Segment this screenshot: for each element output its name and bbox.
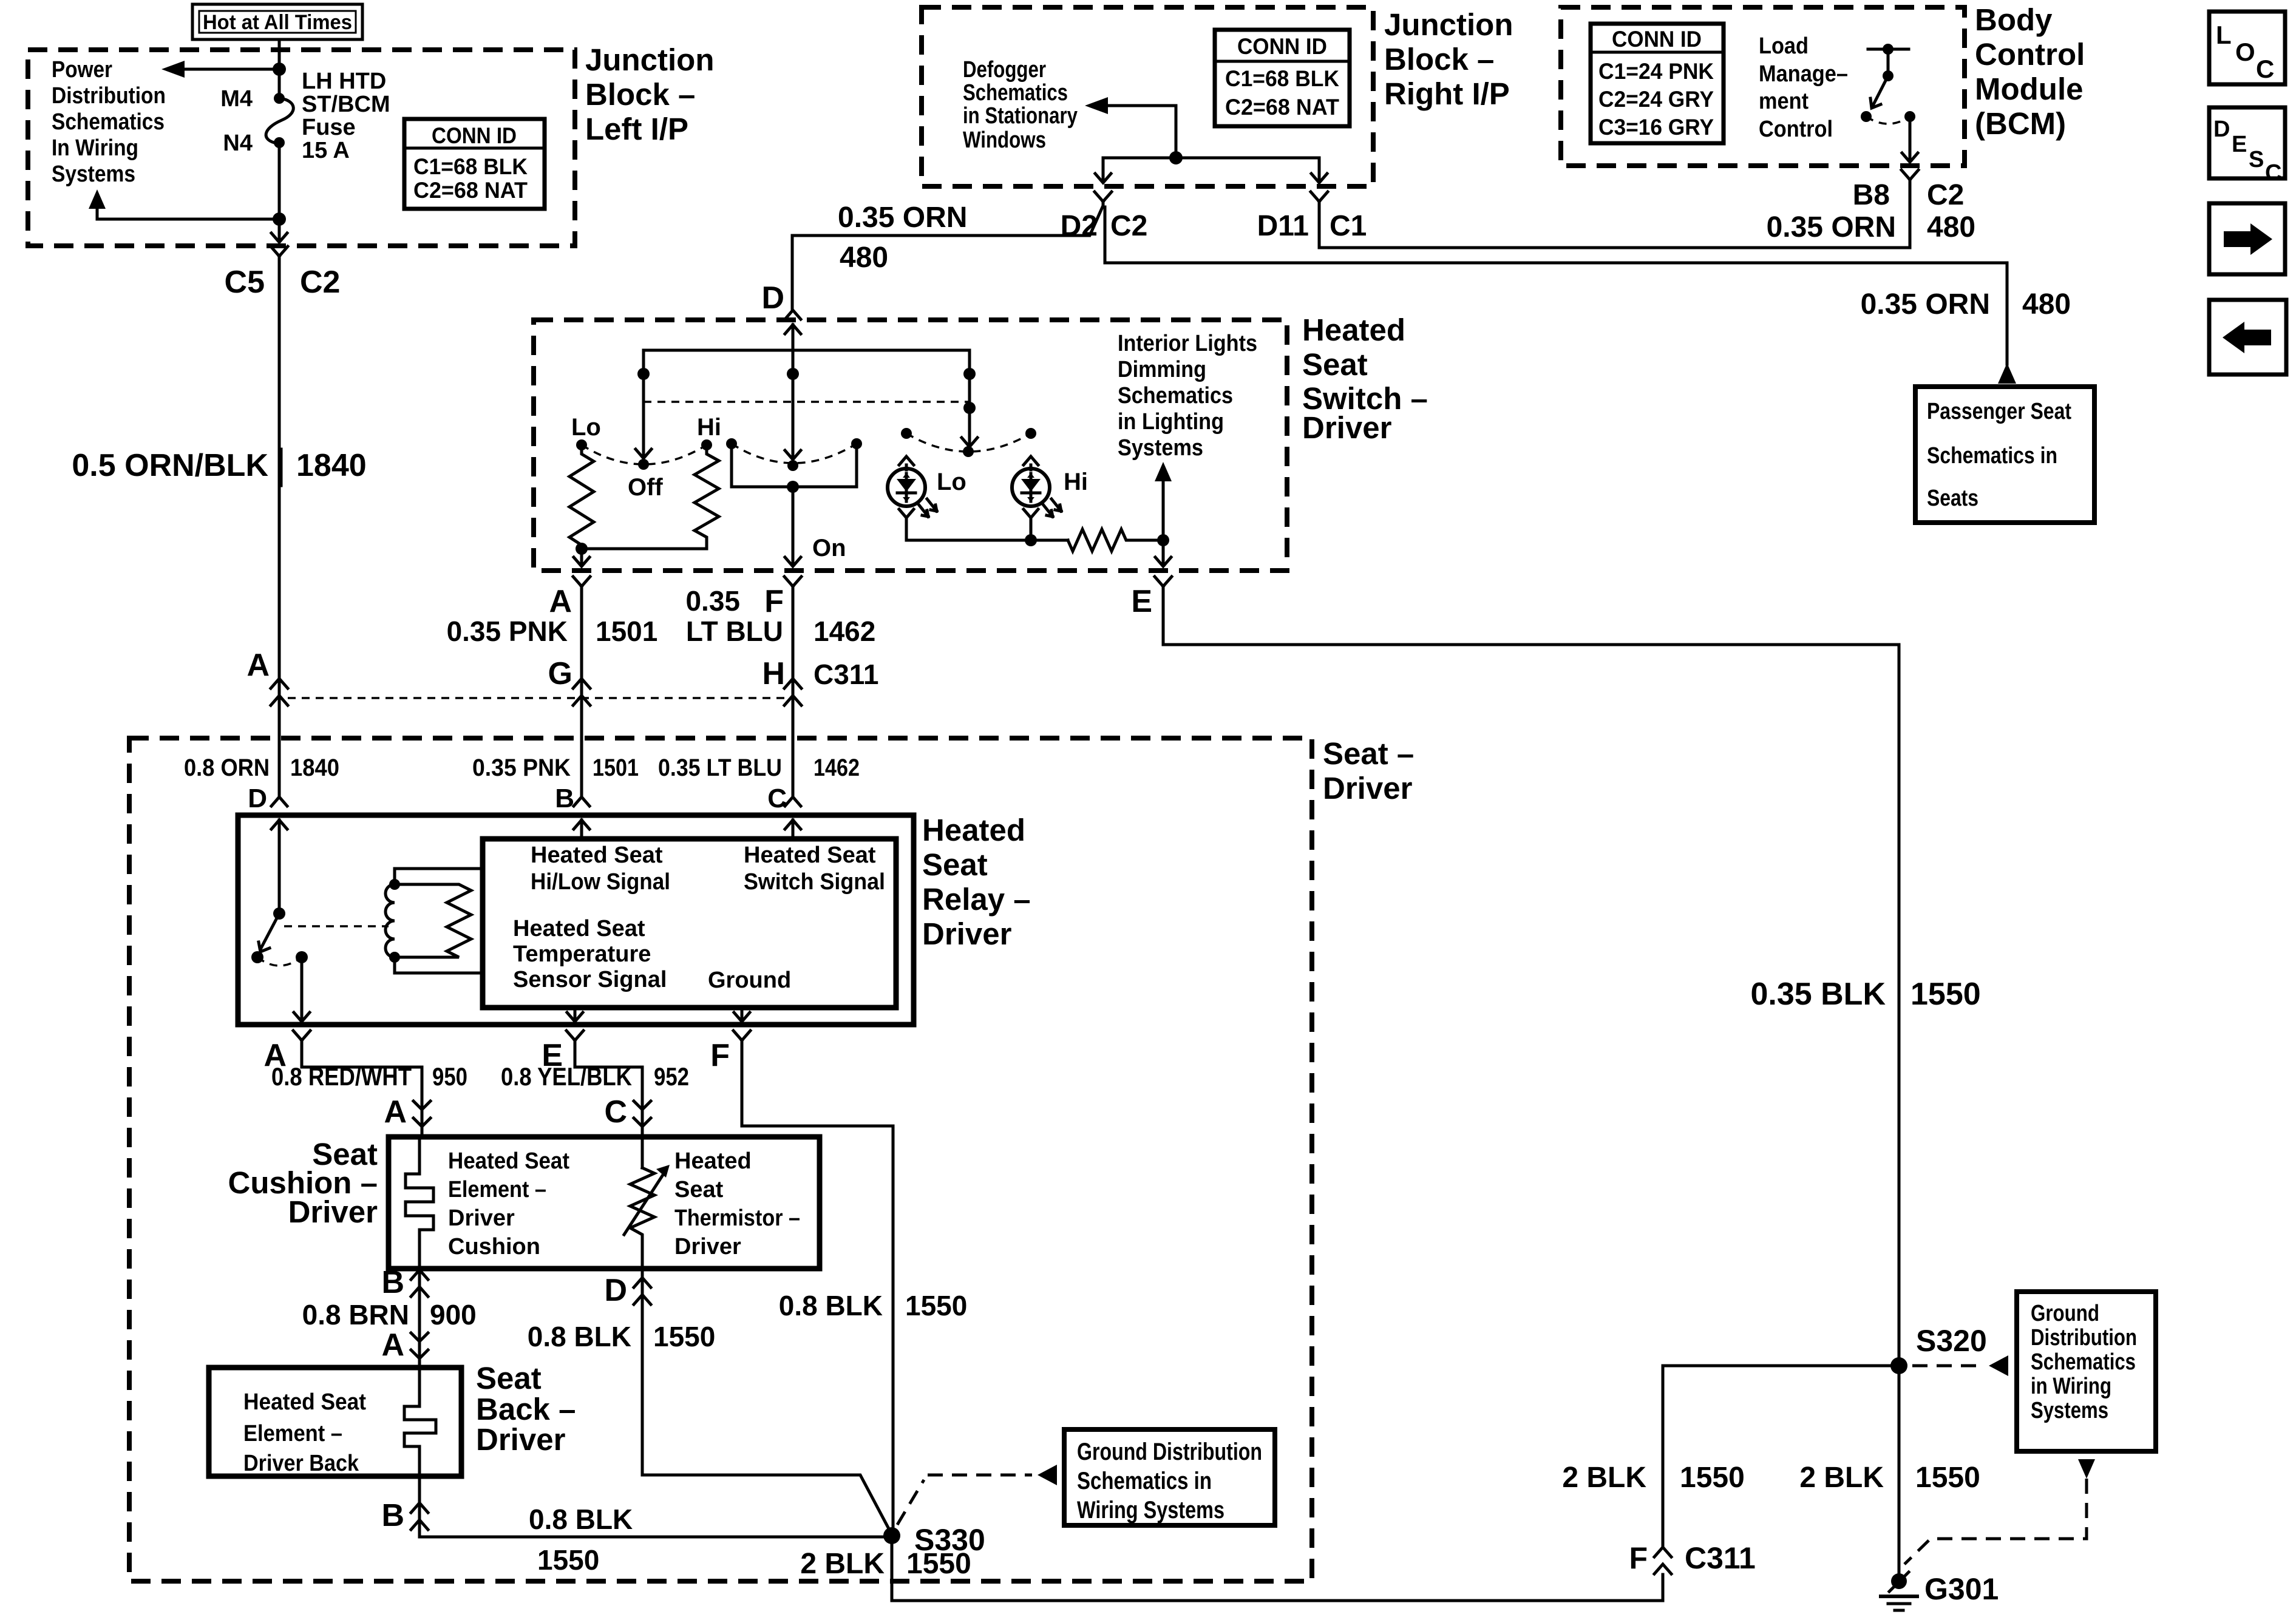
- svg-text:Left I/P: Left I/P: [585, 112, 688, 146]
- dashed reference to G301: [1904, 1479, 2087, 1564]
- fuse LH HTD ST/BCM 15 A: [266, 98, 293, 143]
- svg-text:D: D: [2213, 117, 2230, 142]
- dashed reference from S320: [1912, 1364, 1984, 1368]
- wire thermistor D to S330: [642, 1269, 892, 1534]
- heater element driver back: [404, 1368, 436, 1476]
- arrowhead left (ground distribution reference right): [1989, 1355, 2008, 1376]
- svg-text:1501: 1501: [593, 754, 639, 781]
- wire S330 to C311 F: [892, 1536, 1663, 1601]
- relay switch arm: [261, 914, 279, 948]
- contact Off: [638, 459, 649, 470]
- connector dashed line C311: [288, 697, 784, 699]
- wire switch A to relay B: [580, 591, 583, 796]
- svg-text:B8: B8: [1853, 179, 1890, 211]
- relay inner box: [483, 839, 896, 1008]
- svg-text:Element –: Element –: [243, 1421, 342, 1446]
- wire LED cathode bus: [906, 529, 1068, 540]
- splice S320: [1890, 1357, 1907, 1374]
- svg-text:480: 480: [840, 242, 888, 274]
- relay contact arc: [257, 957, 302, 966]
- wire on/off contacts to On bus: [732, 444, 857, 487]
- svg-text:1550: 1550: [906, 1548, 971, 1580]
- svg-text:Temperature: Temperature: [513, 941, 651, 967]
- svg-text:Right I/P: Right I/P: [1384, 76, 1510, 111]
- dashed box Junction Block - Right I/P (defogger): [922, 7, 1373, 186]
- dashed mechanical linkage: [644, 401, 970, 403]
- svg-text:B: B: [381, 1265, 404, 1300]
- junction node: [1025, 534, 1037, 546]
- svg-text:1462: 1462: [813, 615, 875, 647]
- svg-text:D: D: [761, 280, 784, 316]
- arrow onto Off contact: [636, 449, 651, 458]
- junction node: [273, 63, 286, 76]
- svg-text:S320: S320: [1916, 1324, 1987, 1358]
- in-line connector D (thermistor out): [634, 1278, 651, 1304]
- relay inner box labels: [513, 842, 885, 993]
- svg-text:LT BLU: LT BLU: [686, 615, 783, 647]
- svg-text:F: F: [1629, 1541, 1648, 1575]
- dashed linkage to coil: [284, 925, 389, 927]
- svg-text:0.35 ORN: 0.35 ORN: [1861, 288, 1990, 320]
- dashed reference from S330: [897, 1475, 1032, 1525]
- resistor (Hi): [695, 450, 719, 549]
- svg-text:G301: G301: [1924, 1572, 1999, 1606]
- thermistor driver: [630, 1168, 654, 1269]
- svg-text:Systems: Systems: [2031, 1398, 2108, 1423]
- indicator LED Lo: [888, 469, 937, 517]
- in-line connector A (seat back): [411, 1333, 428, 1358]
- svg-text:in Stationary: in Stationary: [963, 103, 1078, 129]
- wire from defogger reference: [1108, 106, 1176, 158]
- svg-text:0.8 BLK: 0.8 BLK: [528, 1321, 631, 1352]
- svg-text:Body: Body: [1975, 2, 2053, 37]
- connector E below relay: [566, 1031, 583, 1045]
- BCM load management switch: [1861, 44, 1915, 124]
- svg-text:Driver: Driver: [448, 1205, 515, 1231]
- relay outer box Heated Seat Relay - Driver: [238, 815, 914, 1025]
- svg-text:Heated: Heated: [1302, 313, 1405, 347]
- svg-text:Element –: Element –: [448, 1177, 546, 1202]
- reference text Interior Lights Dimming Schematics in Lighting Systems: [1118, 331, 1257, 461]
- arrowhead left (defogger reference): [1085, 97, 1108, 114]
- wire coil to inner box: [395, 869, 483, 973]
- svg-text:Seat –: Seat –: [1323, 736, 1414, 771]
- svg-text:CONN ID: CONN ID: [1612, 27, 1702, 52]
- svg-text:C2=24 GRY: C2=24 GRY: [1598, 87, 1714, 112]
- dashed box Heated Seat Switch - Driver: [534, 320, 1287, 571]
- svg-text:0.35 ORN: 0.35 ORN: [838, 202, 967, 234]
- reference text Load Management Control: [1759, 33, 1848, 142]
- wire relay A to seat cushion element: [302, 1045, 422, 1137]
- svg-text:Seat: Seat: [476, 1361, 542, 1395]
- svg-text:C5: C5: [225, 265, 265, 300]
- svg-text:ST/BCM: ST/BCM: [302, 92, 390, 117]
- svg-text:Heated Seat: Heated Seat: [243, 1389, 366, 1415]
- arrow up relay B input: [580, 820, 583, 839]
- connector C5/C2: [271, 246, 288, 260]
- arrowhead up into passenger seat reference: [1998, 363, 2016, 384]
- svg-text:0.35 LT BLU: 0.35 LT BLU: [658, 754, 782, 781]
- wire On output: [792, 487, 795, 563]
- svg-text:Interior Lights: Interior Lights: [1118, 331, 1257, 356]
- svg-text:CONN ID: CONN ID: [1237, 34, 1327, 59]
- svg-text:F: F: [764, 584, 784, 619]
- svg-text:Load: Load: [1759, 33, 1809, 59]
- wire switch E to S320: [1163, 591, 1899, 1366]
- section label Heated Seat Switch - Driver: [1302, 313, 1428, 445]
- svg-text:0.8 RED/WHT: 0.8 RED/WHT: [271, 1062, 412, 1091]
- svg-text:900: 900: [430, 1299, 477, 1331]
- icon box arrow right: [2209, 203, 2285, 274]
- svg-text:Driver Back: Driver Back: [243, 1451, 359, 1476]
- svg-text:Lo: Lo: [571, 414, 601, 441]
- junction node: [1157, 534, 1169, 546]
- arrow down at BCM box edge: [1902, 153, 1918, 162]
- svg-text:C1=68 BLK: C1=68 BLK: [1225, 66, 1339, 91]
- svg-text:Junction: Junction: [1384, 7, 1513, 42]
- switch contacts (on/off pole): [726, 438, 737, 449]
- junction nodes on rail drops: [637, 368, 650, 380]
- section label Seat Cushion - Driver: [228, 1137, 378, 1229]
- svg-text:L: L: [2216, 21, 2232, 49]
- wire D11/C1 to BCM B8: [1319, 181, 1910, 248]
- svg-text:0.5 ORN/BLK: 0.5 ORN/BLK: [72, 448, 268, 483]
- connector A below switch: [573, 577, 590, 591]
- svg-text:1501: 1501: [596, 615, 657, 647]
- svg-text:Schematics in: Schematics in: [1927, 443, 2057, 469]
- wire 0.5 ORN/BLK 1840 down left side: [278, 260, 281, 796]
- wire C2 to passenger seat reference: [1105, 207, 2007, 364]
- svg-text:0.8 YEL/BLK: 0.8 YEL/BLK: [501, 1062, 632, 1091]
- svg-text:C311: C311: [1685, 1541, 1756, 1575]
- svg-text:950: 950: [432, 1062, 467, 1091]
- svg-text:2 BLK: 2 BLK: [1799, 1462, 1884, 1494]
- svg-text:C: C: [2265, 160, 2281, 186]
- svg-text:E: E: [2232, 132, 2247, 157]
- connector D11/C1: [1311, 192, 1328, 206]
- svg-text:Windows: Windows: [963, 127, 1046, 153]
- svg-text:In Wiring: In Wiring: [52, 135, 138, 161]
- svg-text:Hi/Low Signal: Hi/Low Signal: [531, 869, 670, 895]
- svg-text:1550: 1550: [1680, 1462, 1745, 1494]
- svg-text:Passenger Seat: Passenger Seat: [1927, 399, 2071, 424]
- junction node: [576, 543, 588, 555]
- svg-text:A: A: [381, 1327, 404, 1363]
- svg-text:LH HTD: LH HTD: [302, 69, 386, 94]
- male connector D into switch: [785, 310, 801, 319]
- dashed box Seat - Driver: [129, 738, 1312, 1581]
- wire to second reference arrow: [97, 208, 279, 219]
- arrowhead up (power distribution reference): [89, 189, 106, 209]
- svg-text:C: C: [604, 1094, 627, 1130]
- label Heated Seat Thermistor - Driver: [674, 1148, 800, 1259]
- in-line connector B (seat back out): [411, 1503, 428, 1530]
- splice S330: [883, 1527, 900, 1544]
- svg-text:Junction: Junction: [585, 42, 715, 77]
- connector D2/C2: [1095, 192, 1112, 206]
- svg-text:Distribution: Distribution: [52, 83, 166, 109]
- svg-text:B: B: [381, 1498, 404, 1533]
- svg-text:1462: 1462: [813, 754, 860, 781]
- wiper travel arc (heat level): [582, 445, 707, 464]
- svg-text:1840: 1840: [290, 754, 339, 781]
- svg-text:0.35 PNK: 0.35 PNK: [472, 754, 571, 781]
- wire switch F to relay C: [792, 591, 795, 796]
- arrow up relay C input: [792, 820, 795, 839]
- svg-text:1550: 1550: [537, 1544, 599, 1576]
- male connector into relay B: [574, 797, 589, 806]
- CONN ID table (right junction block): [1215, 30, 1350, 126]
- arrow down at switch box edge (A): [574, 557, 589, 566]
- svg-text:Heated Seat: Heated Seat: [531, 842, 663, 868]
- arrow down to D2: [1095, 174, 1111, 183]
- svg-text:Wiring Systems: Wiring Systems: [1077, 1497, 1224, 1524]
- section label Junction Block - Left I/P: [585, 42, 715, 146]
- in-line connector C (thermistor): [634, 1101, 651, 1127]
- wire E output: [1162, 540, 1165, 563]
- relay coil: [385, 884, 395, 957]
- reference box Ground Distribution Schematics in Wiring Systems (right): [2017, 1292, 2156, 1451]
- connector B8/C2: [1901, 170, 1918, 184]
- relay switch pivot: [273, 907, 285, 920]
- wire relay output E: [574, 1008, 577, 1019]
- svg-text:O: O: [2235, 38, 2255, 66]
- connector F below relay: [733, 1031, 750, 1045]
- wire relay output F: [741, 1008, 744, 1019]
- svg-text:Driver: Driver: [476, 1422, 566, 1457]
- arrowhead up (dimming reference): [1155, 462, 1172, 481]
- wire relay output A: [301, 957, 304, 1019]
- icon box arrow left: [2209, 300, 2286, 375]
- svg-text:in Lighting: in Lighting: [1118, 409, 1224, 435]
- svg-text:Block –: Block –: [585, 77, 695, 112]
- node N4: [274, 137, 285, 148]
- female connector below Lo indicator: [899, 509, 914, 529]
- fuse value label: [302, 69, 390, 163]
- svg-text:2 BLK: 2 BLK: [1562, 1462, 1646, 1494]
- relay contact (right): [296, 951, 308, 963]
- svg-text:Ground: Ground: [708, 968, 791, 993]
- svg-text:0.35 BLK: 0.35 BLK: [1750, 977, 1886, 1012]
- svg-text:C1=24 PNK: C1=24 PNK: [1598, 59, 1714, 84]
- reference text Defogger Schematics in Stationary Windows: [963, 57, 1078, 153]
- male connector into relay C: [785, 797, 801, 806]
- svg-text:S: S: [2249, 147, 2264, 172]
- svg-text:Hi: Hi: [697, 414, 721, 441]
- svg-text:Thermistor –: Thermistor –: [674, 1205, 800, 1231]
- svg-text:480: 480: [1927, 211, 1975, 243]
- svg-text:Control: Control: [1759, 117, 1833, 142]
- connector F below switch: [784, 577, 801, 591]
- reference text Power Distribution Schematics In Wiring Systems: [52, 57, 166, 187]
- wire relay E to thermistor: [575, 1045, 642, 1168]
- wire S320 to G301: [1898, 1366, 1901, 1579]
- svg-text:1550: 1550: [1915, 1462, 1980, 1494]
- ground G301: [1881, 1572, 1917, 1610]
- in-line connector G: [573, 679, 590, 705]
- wire from fuse down: [278, 143, 281, 239]
- svg-text:0.35 ORN: 0.35 ORN: [1767, 211, 1896, 243]
- svg-text:Control: Control: [1975, 37, 2085, 72]
- arrow onto On wiper: [785, 450, 801, 459]
- indicator LED Hi: [1012, 469, 1061, 517]
- svg-text:D11: D11: [1257, 210, 1309, 242]
- svg-text:N4: N4: [223, 131, 253, 156]
- seat back element box: [209, 1368, 461, 1476]
- svg-text:H: H: [762, 656, 785, 691]
- svg-text:1550: 1550: [905, 1290, 967, 1321]
- wire resistor bottoms to A: [582, 549, 707, 563]
- lamp selector contacts: [901, 428, 912, 439]
- dimming resistor: [1068, 529, 1163, 551]
- wire D2 to heated seat switch D: [792, 207, 1102, 309]
- svg-text:0.8 BRN: 0.8 BRN: [302, 1299, 409, 1331]
- svg-text:Cushion: Cushion: [448, 1234, 540, 1259]
- junction node: [273, 212, 286, 226]
- icon box LOC: [2209, 12, 2285, 84]
- svg-text:Seat: Seat: [922, 847, 988, 882]
- coil suppression resistor: [395, 884, 471, 957]
- wire supply rail in switch: [644, 325, 970, 458]
- svg-text:0.8 BLK: 0.8 BLK: [779, 1290, 883, 1321]
- svg-text:(BCM): (BCM): [1975, 106, 2066, 141]
- arrowhead down below ground reference box: [2078, 1459, 2095, 1479]
- in-line connector B (cushion out): [411, 1270, 428, 1297]
- section label Seat - Driver: [1323, 736, 1414, 805]
- svg-text:C1=68 BLK: C1=68 BLK: [413, 154, 528, 179]
- wire cushion element B to seat back: [418, 1269, 421, 1368]
- svg-text:A: A: [384, 1094, 407, 1130]
- svg-text:Hot at All Times: Hot at All Times: [203, 11, 352, 34]
- wire BCM switch to B8: [1909, 117, 1912, 159]
- svg-text:1550: 1550: [653, 1321, 715, 1352]
- svg-text:C: C: [2256, 55, 2274, 83]
- svg-text:M4: M4: [220, 86, 253, 112]
- wire C311 F to S320: [1663, 1366, 1899, 1547]
- svg-text:15 A: 15 A: [302, 138, 350, 163]
- wire seat back B to S330: [419, 1476, 892, 1537]
- svg-text:952: 952: [654, 1062, 689, 1091]
- wire to interior lights dimming reference: [1162, 480, 1165, 540]
- in-line connector H: [784, 679, 801, 705]
- svg-text:Schematics: Schematics: [1118, 383, 1233, 408]
- wiper travel arc (on/off): [732, 444, 857, 463]
- svg-text:Seat: Seat: [674, 1177, 724, 1202]
- svg-text:Systems: Systems: [52, 161, 135, 187]
- svg-text:D: D: [604, 1273, 627, 1308]
- svg-text:Power: Power: [52, 57, 112, 83]
- svg-text:Distribution: Distribution: [2031, 1325, 2137, 1351]
- svg-text:0.8 BLK: 0.8 BLK: [529, 1503, 633, 1535]
- svg-text:Lo: Lo: [937, 469, 966, 495]
- svg-text:C2: C2: [1110, 210, 1147, 242]
- svg-text:1550: 1550: [1911, 977, 1981, 1012]
- wire bus to D2 and D11: [1103, 158, 1319, 180]
- svg-text:Manage–: Manage–: [1759, 61, 1848, 87]
- svg-text:Off: Off: [628, 474, 663, 501]
- svg-text:Heated: Heated: [922, 813, 1025, 847]
- svg-text:B: B: [555, 784, 574, 813]
- svg-text:0.35 PNK: 0.35 PNK: [447, 615, 568, 647]
- power feed label box "Hot at All Times": [192, 4, 362, 39]
- svg-text:C2=68 NAT: C2=68 NAT: [1225, 95, 1339, 120]
- wire relay F ground to S330: [742, 1045, 893, 1536]
- heater element driver cushion: [406, 1137, 433, 1269]
- svg-text:1840: 1840: [296, 448, 367, 483]
- dashed box Junction Block - Left I/P (power distribution): [28, 50, 575, 246]
- svg-text:Ground Distribution: Ground Distribution: [1077, 1439, 1262, 1465]
- section label Body Control Module (BCM): [1975, 2, 2085, 141]
- wiper travel arc (lamps): [906, 433, 1031, 452]
- svg-text:Driver: Driver: [288, 1195, 378, 1229]
- svg-text:Heated Seat: Heated Seat: [448, 1148, 569, 1174]
- svg-text:F: F: [710, 1038, 730, 1073]
- male connector above Hi indicator: [1024, 456, 1038, 470]
- section label Seat Back - Driver: [476, 1361, 576, 1457]
- reference box Ground Distribution Schematics in Wiring Systems (center): [1064, 1429, 1275, 1525]
- relay contact (left): [251, 951, 263, 963]
- svg-text:Schematics: Schematics: [2031, 1349, 2136, 1375]
- contact Hi: [701, 439, 712, 450]
- arrow up relay D input: [278, 820, 281, 914]
- connector A below relay: [293, 1031, 310, 1045]
- male connector into relay: [271, 797, 287, 806]
- svg-text:Defogger: Defogger: [963, 57, 1046, 83]
- svg-text:Back –: Back –: [476, 1392, 576, 1426]
- arrow down to D11: [1311, 174, 1327, 183]
- svg-text:Fuse: Fuse: [302, 115, 356, 140]
- svg-text:Systems: Systems: [1118, 435, 1203, 461]
- wire from Hot at All Times down: [278, 39, 281, 98]
- svg-text:Module: Module: [1975, 72, 2083, 106]
- resistor (Lo): [569, 450, 594, 549]
- arrowhead left (ground distribution reference): [1038, 1465, 1057, 1485]
- seat cushion element box: [389, 1137, 820, 1269]
- junction node: [1169, 151, 1183, 164]
- wire to power distribution reference arrow: [183, 68, 279, 71]
- svg-text:CONN ID: CONN ID: [432, 123, 517, 148]
- svg-text:Driver: Driver: [922, 917, 1012, 951]
- junction node On: [787, 481, 799, 493]
- label Heated Seat Element - Driver Back: [243, 1389, 366, 1476]
- label Heated Seat Element - Driver Cushion: [448, 1148, 569, 1259]
- reference box Passenger Seat Schematics in Seats: [1915, 387, 2094, 523]
- svg-text:0.35: 0.35: [685, 585, 740, 617]
- svg-text:Heated Seat: Heated Seat: [744, 842, 876, 868]
- svg-text:C3=16 GRY: C3=16 GRY: [1598, 115, 1714, 140]
- svg-text:Schematics in: Schematics in: [1077, 1468, 1212, 1494]
- svg-text:Ground: Ground: [2031, 1301, 2099, 1326]
- in-line connector A (cushion): [413, 1101, 430, 1127]
- svg-text:Switch Signal: Switch Signal: [744, 869, 885, 895]
- arrow down at switch box edge (F): [785, 557, 801, 566]
- svg-text:D: D: [248, 784, 267, 813]
- svg-text:A: A: [246, 648, 270, 683]
- arrow onto lamp wiper: [962, 438, 977, 447]
- svg-text:C2=68 NAT: C2=68 NAT: [413, 178, 528, 203]
- svg-text:Block –: Block –: [1384, 42, 1494, 76]
- female connector below Hi indicator: [1024, 509, 1038, 529]
- contact Lo: [576, 439, 587, 450]
- svg-text:Seat: Seat: [1302, 347, 1368, 382]
- svg-text:0.8 ORN: 0.8 ORN: [184, 754, 270, 781]
- svg-text:Heated: Heated: [674, 1148, 752, 1174]
- arrow down at box edge: [271, 233, 287, 242]
- svg-text:C311: C311: [813, 659, 878, 690]
- svg-text:A: A: [549, 584, 572, 619]
- svg-text:C1: C1: [1330, 210, 1367, 242]
- svg-text:D2: D2: [1061, 210, 1098, 242]
